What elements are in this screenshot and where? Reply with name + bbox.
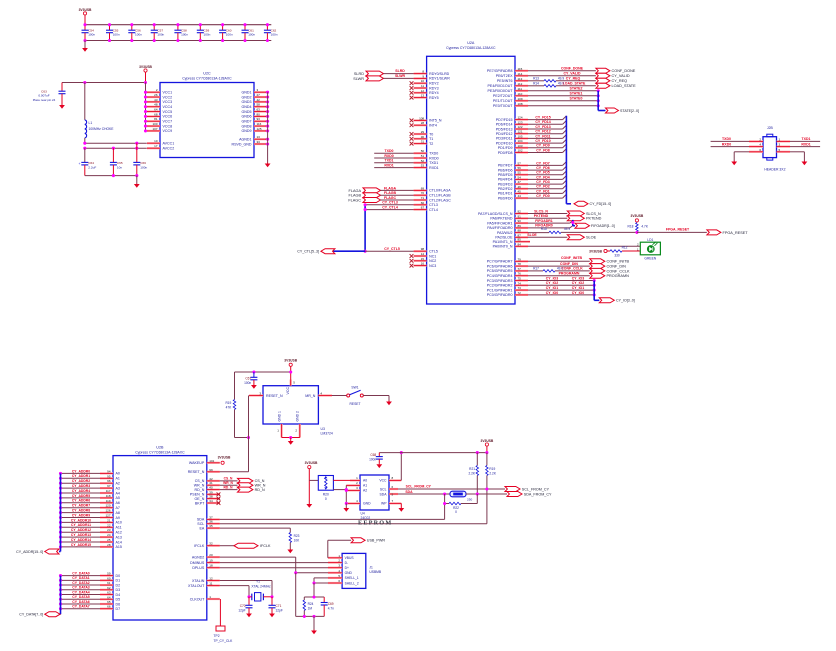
svg-text:A5: A5 xyxy=(116,496,120,500)
svg-text:U2C: U2C xyxy=(203,72,211,76)
svg-text:PC7/GPIFADR7: PC7/GPIFADR7 xyxy=(487,260,513,264)
port FIFOADR[1..0] xyxy=(575,223,590,228)
op-amp U3 LM3724 xyxy=(263,386,318,424)
svg-text:CY_REQ: CY_REQ xyxy=(566,77,581,81)
svg-text:RD_N: RD_N xyxy=(224,485,234,489)
pin J1 SHELL_1 xyxy=(328,577,342,579)
wire CY_ADDR15 xyxy=(61,546,101,548)
wire J2B pin6 gnd xyxy=(734,151,749,153)
svg-text:WR_N: WR_N xyxy=(255,484,266,488)
pin AVCC2 xyxy=(147,147,160,149)
wire FIFOADR0 xyxy=(528,227,570,229)
svg-text:64: 64 xyxy=(107,595,111,599)
pin VCC5 xyxy=(146,111,148,113)
svg-text:PA3/WU2: PA3/WU2 xyxy=(497,231,513,235)
svg-text:TP2: TP2 xyxy=(214,634,220,638)
wire R20 to A0 xyxy=(333,479,360,481)
svg-text:3V3USB: 3V3USB xyxy=(79,8,92,12)
svg-text:VCC: VCC xyxy=(379,479,387,483)
svg-text:16: 16 xyxy=(421,262,425,266)
wire U2C GND rail xyxy=(267,92,269,144)
wire RXD1 xyxy=(790,146,820,148)
svg-text:PE5/INT6: PE5/INT6 xyxy=(497,79,513,83)
pin J1 D+ xyxy=(328,567,342,569)
wire STATE0 xyxy=(528,100,598,102)
junction STATE2 xyxy=(597,89,600,92)
svg-text:100n: 100n xyxy=(204,32,211,36)
svg-text:60: 60 xyxy=(107,576,111,580)
svg-text:T0: T0 xyxy=(429,132,433,136)
wire PE0 xyxy=(528,105,598,107)
pin CTL0/FLAGA xyxy=(414,189,427,191)
svg-text:TXD0: TXD0 xyxy=(429,152,438,156)
port CY_VALID xyxy=(596,73,610,78)
wire CY_FD11 xyxy=(528,137,563,139)
svg-text:CY_FD10: CY_FD10 xyxy=(535,139,550,143)
svg-text:Place near pin 24: Place near pin 24 xyxy=(33,98,56,102)
port SLWR xyxy=(366,76,384,81)
svg-text:84: 84 xyxy=(518,242,522,246)
pin PE5/INT6 xyxy=(515,80,528,82)
wire RXD0 xyxy=(374,157,413,159)
wire CY_ADDR7 xyxy=(61,507,101,509)
svg-text:100n: 100n xyxy=(369,458,376,462)
svg-text:RXD0: RXD0 xyxy=(429,156,439,160)
pin T1 xyxy=(414,138,427,140)
wire SCL_FROM_CY xyxy=(398,488,505,490)
pin AVCC1 xyxy=(147,142,160,144)
svg-text:D+: D+ xyxy=(345,566,349,570)
svg-text:A14: A14 xyxy=(116,540,122,544)
pin A14 xyxy=(100,541,113,543)
svg-text:CY_ADDR13: CY_ADDR13 xyxy=(71,533,91,537)
pin VCC4 xyxy=(146,106,148,108)
svg-text:31: 31 xyxy=(421,140,425,144)
svg-text:XTALOUT: XTALOUT xyxy=(188,584,205,588)
wire FLAGA xyxy=(381,189,414,191)
pin TXD1 xyxy=(414,162,427,164)
capacitor C56 xyxy=(131,25,133,31)
wire XTALOUT xyxy=(220,585,249,587)
svg-text:CY_DATA6: CY_DATA6 xyxy=(72,600,90,604)
wire WR_N xyxy=(220,484,238,486)
pin VCC (U4) xyxy=(389,479,401,481)
pin PC4/GPIFADR4 xyxy=(515,275,528,277)
wire CY_FD1 xyxy=(528,192,563,194)
wire PE4 to R14 xyxy=(528,85,544,87)
svg-text:CY_FD15: CY_FD15 xyxy=(535,116,550,120)
svg-text:35: 35 xyxy=(209,524,213,528)
svg-text:100n: 100n xyxy=(244,381,251,385)
svg-text:VCC3: VCC3 xyxy=(163,100,173,104)
port PKTEND xyxy=(567,216,584,221)
resistor R12 xyxy=(610,250,622,253)
port FLAGB xyxy=(363,193,381,198)
wire CY_FD14 xyxy=(528,123,563,125)
svg-text:C68: C68 xyxy=(370,453,376,457)
svg-text:52: 52 xyxy=(421,159,425,163)
svg-text:VCC: VCC xyxy=(286,387,290,395)
wire 3V3 to R12 xyxy=(607,250,610,252)
junction C59 top xyxy=(199,23,202,26)
svg-text:120: 120 xyxy=(105,504,110,508)
junction C57 top xyxy=(153,23,156,26)
svg-text:SCL_FROM_CY: SCL_FROM_CY xyxy=(406,485,432,489)
pin PB1/FD1 xyxy=(515,192,528,194)
svg-text:IFCLK: IFCLK xyxy=(260,544,271,548)
resistor R22 xyxy=(445,503,449,505)
svg-text:WR_N: WR_N xyxy=(223,481,233,485)
svg-text:124: 124 xyxy=(518,116,523,120)
svg-text:CY_IO3: CY_IO3 xyxy=(546,276,559,280)
svg-text:78: 78 xyxy=(518,262,522,266)
svg-text:3V3USB: 3V3USB xyxy=(139,65,152,69)
svg-text:49.9: 49.9 xyxy=(564,227,570,231)
svg-text:R17: R17 xyxy=(533,267,539,271)
svg-text:33: 33 xyxy=(257,140,261,144)
svg-text:CY_IO[3..0]: CY_IO[3..0] xyxy=(616,299,635,303)
wire CONF_INITB xyxy=(528,260,590,262)
pin GND8 xyxy=(254,125,267,127)
wire ferrite to SDA port xyxy=(466,493,507,495)
svg-text:79: 79 xyxy=(518,257,522,261)
pin PC6/GPIFADR6 xyxy=(515,265,528,267)
svg-text:PD5/FD13: PD5/FD13 xyxy=(496,127,513,131)
svg-text:100n: 100n xyxy=(157,32,164,36)
svg-text:RD_N: RD_N xyxy=(255,488,265,492)
no-connect T1 xyxy=(410,137,414,141)
junction STATE1 xyxy=(597,94,600,97)
testpoint TP2 xyxy=(216,626,225,631)
svg-text:CY_IO0: CY_IO0 xyxy=(572,291,585,295)
pin EA xyxy=(207,527,220,529)
no-connect PSEN_N xyxy=(217,492,221,496)
svg-text:69: 69 xyxy=(421,186,425,190)
power 3V3USB (R18) xyxy=(635,219,638,222)
wire CY_DATA4 xyxy=(61,594,101,596)
capacitor C55 xyxy=(109,25,111,31)
svg-text:12pF: 12pF xyxy=(238,608,245,612)
junction AVCC nodes xyxy=(83,142,86,145)
svg-text:4.7n: 4.7n xyxy=(328,606,334,610)
svg-text:CONF_INITB: CONF_INITB xyxy=(561,256,582,260)
ground (C71) xyxy=(271,612,273,615)
wire CY_IO1 xyxy=(528,289,594,291)
svg-text:100n: 100n xyxy=(248,32,255,36)
pin PE0/T0OUT xyxy=(515,105,528,107)
svg-text:D2: D2 xyxy=(116,583,121,587)
port CY_REQ xyxy=(596,78,610,83)
svg-text:CY_ADDR11: CY_ADDR11 xyxy=(71,523,91,527)
svg-text:85: 85 xyxy=(518,238,522,242)
wire CY_ADDR10 xyxy=(61,521,101,523)
resistor R21 xyxy=(476,453,478,466)
resistor R13 xyxy=(544,80,556,83)
svg-text:PC4/GPIFADR4: PC4/GPIFADR4 xyxy=(487,274,513,278)
svg-text:RESET_N: RESET_N xyxy=(188,470,205,474)
wire 3V3 rail (EEPROM) xyxy=(379,452,487,454)
svg-text:81: 81 xyxy=(154,117,158,121)
resistor R24 xyxy=(303,597,305,600)
svg-text:PA1/INT1_N: PA1/INT1_N xyxy=(493,240,513,244)
svg-text:100n: 100n xyxy=(88,32,95,36)
svg-text:PD0/FD8: PD0/FD8 xyxy=(498,151,513,155)
pin DPLUS xyxy=(207,567,220,569)
svg-text:11: 11 xyxy=(421,84,424,88)
svg-text:CY_FD7: CY_FD7 xyxy=(536,161,549,165)
svg-text:4.7K: 4.7K xyxy=(641,224,648,228)
svg-text:CY_REQ: CY_REQ xyxy=(612,79,628,83)
svg-text:CTL3: CTL3 xyxy=(429,203,438,207)
svg-text:110: 110 xyxy=(518,92,523,96)
svg-text:VBUS: VBUS xyxy=(345,556,355,560)
svg-text:42: 42 xyxy=(257,98,261,102)
wire CY_VALID xyxy=(528,75,596,77)
svg-text:CY_FD3: CY_FD3 xyxy=(536,180,549,184)
wire RC top node xyxy=(304,596,324,598)
junction L1 top xyxy=(83,81,86,84)
wire CY_DATA5 xyxy=(61,598,101,600)
port SLCS_N xyxy=(567,211,584,216)
svg-text:55: 55 xyxy=(518,171,522,175)
svg-text:LOAD_STATE: LOAD_STATE xyxy=(612,84,637,88)
svg-text:D5: D5 xyxy=(116,598,121,602)
svg-text:PB7/FD7: PB7/FD7 xyxy=(498,164,513,168)
svg-text:109: 109 xyxy=(518,97,523,101)
svg-text:D3: D3 xyxy=(116,588,121,592)
pin PB2/FD2 xyxy=(515,188,528,190)
junction crystal nodes xyxy=(247,595,250,598)
svg-text:SDA: SDA xyxy=(380,492,388,496)
op-amp U2C (FX2LP power section) xyxy=(160,83,254,158)
svg-text:VCC7: VCC7 xyxy=(163,120,173,124)
switch SW1 xyxy=(347,394,350,397)
svg-text:A0: A0 xyxy=(116,472,120,476)
svg-text:TXD0: TXD0 xyxy=(385,149,394,153)
pin D5 xyxy=(100,598,113,600)
svg-text:T2: T2 xyxy=(429,142,433,146)
pin PA6/PKTEND xyxy=(515,217,528,219)
junction C60 top xyxy=(221,23,224,26)
pin T2 xyxy=(414,143,427,145)
svg-text:SHELL_1: SHELL_1 xyxy=(345,576,359,580)
svg-text:127: 127 xyxy=(105,514,110,518)
svg-text:PD1/FD9: PD1/FD9 xyxy=(498,146,513,150)
svg-text:GND: GND xyxy=(363,502,371,506)
svg-text:13: 13 xyxy=(257,135,261,139)
wire CY_REQ xyxy=(556,80,596,82)
svg-text:SCL_FROM_CY: SCL_FROM_CY xyxy=(522,487,550,491)
pin PE2/T2OUT xyxy=(515,95,528,97)
wire CY_DATA0 xyxy=(61,575,101,577)
svg-text:GND 1: GND 1 xyxy=(277,411,281,421)
pin WR_N xyxy=(207,484,220,486)
no-connect RDY4 xyxy=(410,91,414,95)
wire CONF_DONE xyxy=(528,70,596,72)
pin VCC9 xyxy=(146,130,148,132)
svg-text:PB3/FD3: PB3/FD3 xyxy=(498,182,513,186)
svg-text:45: 45 xyxy=(518,189,522,193)
svg-text:GND3: GND3 xyxy=(242,100,252,104)
svg-text:C65: C65 xyxy=(117,161,123,165)
wire CY_FD0 xyxy=(528,197,563,199)
pin NC1 xyxy=(414,255,427,257)
wire CY_IO3 xyxy=(528,280,594,282)
svg-text:CY_ADDR7: CY_ADDR7 xyxy=(72,504,90,508)
wire SHELL_2 xyxy=(314,582,328,584)
svg-text:CY_ADDR14: CY_ADDR14 xyxy=(71,538,91,542)
svg-text:CY_IO3: CY_IO3 xyxy=(572,276,585,280)
svg-text:62: 62 xyxy=(107,586,111,590)
no-connect INT5_N xyxy=(410,119,414,123)
svg-text:1M: 1M xyxy=(308,606,313,610)
svg-text:54: 54 xyxy=(518,175,522,179)
svg-text:CY_FD9: CY_FD9 xyxy=(536,144,549,148)
svg-text:22: 22 xyxy=(107,523,111,527)
wire CY_ADDR9 xyxy=(61,517,101,519)
port CY_ADDR[15..0] xyxy=(45,549,59,554)
svg-text:TXD1: TXD1 xyxy=(429,161,438,165)
svg-text:12: 12 xyxy=(209,577,213,581)
svg-text:CY_FD8: CY_FD8 xyxy=(536,148,549,152)
pin CTL2/FLAGC xyxy=(414,199,427,201)
pin VCC7 xyxy=(146,120,148,122)
pin RDY5 xyxy=(414,96,427,98)
wire PA1 stub xyxy=(528,241,530,243)
pin WP (U4) xyxy=(389,502,401,504)
svg-text:3V3USB: 3V3USB xyxy=(589,249,602,253)
svg-text:PB6/FD6: PB6/FD6 xyxy=(498,168,513,172)
svg-text:CY_DATA7: CY_DATA7 xyxy=(72,605,90,609)
ferrite bead L2 xyxy=(450,491,466,497)
svg-text:3V3USB: 3V3USB xyxy=(480,439,493,443)
no-connect OE_N xyxy=(217,497,221,501)
svg-text:CY_FD12: CY_FD12 xyxy=(535,130,550,134)
svg-text:CTL1/FLAGB: CTL1/FLAGB xyxy=(429,194,451,198)
wire TXD0 xyxy=(711,140,749,142)
wire R22 right leg xyxy=(476,494,478,504)
pin PB5/FD5 xyxy=(515,174,528,176)
svg-text:L1: L1 xyxy=(89,121,93,125)
svg-text:GND9: GND9 xyxy=(242,129,252,133)
wire CY_ADDR13 xyxy=(61,536,101,538)
pin A2 (U4) xyxy=(346,489,360,491)
svg-text:R23: R23 xyxy=(294,534,300,538)
port FLAGA xyxy=(363,188,381,193)
svg-text:PC1/GPIFADR1: PC1/GPIFADR1 xyxy=(487,288,513,292)
pin WAKEUP xyxy=(207,462,220,464)
capacitor C68 xyxy=(378,453,380,457)
svg-text:15: 15 xyxy=(421,257,425,261)
svg-text:PB2/FD2: PB2/FD2 xyxy=(498,187,513,191)
pin D3 xyxy=(100,589,113,591)
svg-text:AGND1: AGND1 xyxy=(239,138,251,142)
svg-text:NC3: NC3 xyxy=(429,264,436,268)
svg-text:41: 41 xyxy=(209,481,213,485)
wire CY_FD10 xyxy=(528,142,563,144)
svg-text:TXD1: TXD1 xyxy=(802,137,811,141)
power 3V3USB (WAKEUP) xyxy=(221,461,224,464)
wire A1/A2/GND column xyxy=(345,485,347,503)
port CONF_INITB xyxy=(590,259,605,264)
svg-text:43: 43 xyxy=(154,98,158,102)
svg-text:108: 108 xyxy=(518,102,523,106)
svg-text:330: 330 xyxy=(614,253,620,257)
svg-text:17: 17 xyxy=(154,144,158,148)
svg-text:71: 71 xyxy=(421,196,425,200)
svg-text:88: 88 xyxy=(518,229,522,233)
svg-text:100n: 100n xyxy=(181,32,188,36)
wire SHELL_1 xyxy=(314,577,328,579)
port USB_PWR xyxy=(351,538,365,543)
junction C67 tap xyxy=(252,370,255,373)
wire DMINUS xyxy=(220,562,328,564)
svg-text:CONF_DIN: CONF_DIN xyxy=(607,265,627,269)
svg-text:R19: R19 xyxy=(225,401,231,405)
svg-text:26: 26 xyxy=(154,93,158,97)
pin SDA xyxy=(207,518,220,520)
svg-text:FPGA_RESET: FPGA_RESET xyxy=(723,231,749,235)
wire AVCC2 xyxy=(85,147,147,149)
svg-text:R22: R22 xyxy=(453,506,459,510)
svg-text:WP: WP xyxy=(381,502,387,506)
pin PD1/FD9 xyxy=(515,147,528,149)
port FPGA_RESET xyxy=(707,230,721,235)
svg-text:PE6/T2EX: PE6/T2EX xyxy=(496,74,513,78)
svg-text:CTL0/FLAGA: CTL0/FLAGA xyxy=(429,189,451,193)
svg-text:10n: 10n xyxy=(117,166,122,170)
svg-text:GND 2: GND 2 xyxy=(296,411,300,421)
svg-text:HEADER 3X2: HEADER 3X2 xyxy=(764,168,785,172)
resistor R14 xyxy=(544,85,556,88)
pin RESET_N (U2B) xyxy=(207,471,220,473)
svg-text:CONF_DONE: CONF_DONE xyxy=(561,67,584,71)
svg-text:R13: R13 xyxy=(533,76,539,80)
pin J2B-1 xyxy=(777,140,791,142)
wire PE5 to R13 xyxy=(528,80,544,82)
pin PE6/T2EX xyxy=(515,75,528,77)
resistor R15 xyxy=(549,231,561,234)
wire CY_CTL5 xyxy=(365,250,414,252)
wire CY_CTL3 xyxy=(365,204,414,206)
pin PE1/T1OUT xyxy=(515,100,528,102)
svg-text:50: 50 xyxy=(421,149,425,153)
svg-text:EA: EA xyxy=(200,526,205,530)
svg-text:13: 13 xyxy=(421,94,425,98)
svg-text:90: 90 xyxy=(518,219,522,223)
pin D1 xyxy=(100,579,113,581)
svg-text:100n: 100n xyxy=(271,32,278,36)
resistor R17 xyxy=(543,270,555,273)
svg-text:PD6/FD14: PD6/FD14 xyxy=(496,123,513,127)
pin GND7 xyxy=(254,120,267,122)
svg-text:GND: GND xyxy=(345,571,353,575)
svg-text:98: 98 xyxy=(421,247,425,251)
junction C56 top xyxy=(130,23,133,26)
svg-text:23: 23 xyxy=(107,528,111,532)
wire CY_ADDR2 xyxy=(61,482,101,484)
svg-text:100n: 100n xyxy=(135,32,142,36)
svg-text:INT4: INT4 xyxy=(429,124,437,128)
resistor R18 xyxy=(636,223,639,232)
svg-text:FLAGB: FLAGB xyxy=(384,191,397,195)
svg-text:103: 103 xyxy=(518,144,523,148)
wire CY_IO2 xyxy=(528,284,594,286)
svg-text:FIFOADR1: FIFOADR1 xyxy=(535,219,553,223)
svg-text:EEPROM: EEPROM xyxy=(358,520,392,527)
pin PD3/FD11 xyxy=(515,137,528,139)
pin J1 VBUS xyxy=(328,557,342,559)
